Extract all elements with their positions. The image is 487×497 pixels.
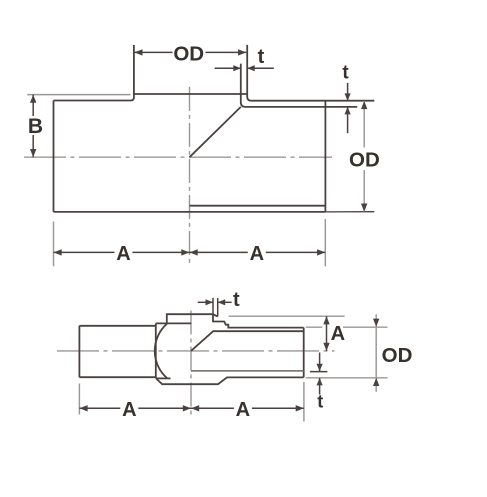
svg-text:B: B: [28, 115, 43, 138]
svg-text:A: A: [122, 399, 136, 421]
svg-text:t: t: [233, 289, 240, 311]
svg-text:A: A: [116, 243, 130, 265]
svg-text:A: A: [236, 399, 250, 421]
svg-text:A: A: [250, 243, 264, 265]
svg-text:t: t: [258, 46, 265, 68]
svg-text:OD: OD: [349, 148, 380, 171]
svg-text:OD: OD: [382, 344, 413, 367]
svg-text:A: A: [331, 323, 345, 345]
svg-text:t: t: [317, 392, 323, 412]
svg-text:t: t: [342, 62, 349, 83]
svg-text:OD: OD: [173, 42, 204, 65]
